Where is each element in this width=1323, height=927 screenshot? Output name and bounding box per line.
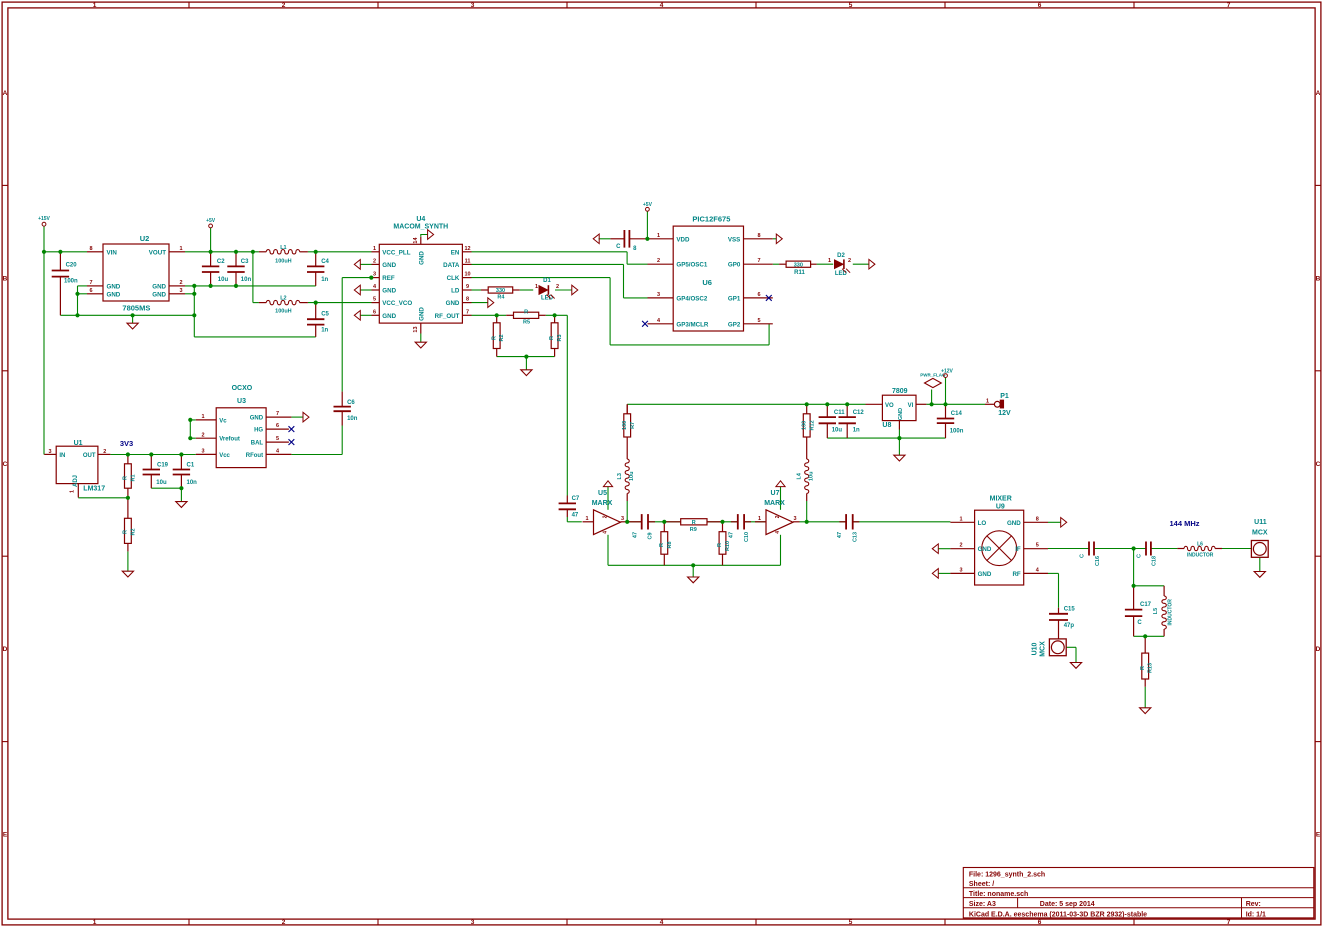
svg-text:D: D bbox=[3, 646, 8, 653]
svg-text:GP1: GP1 bbox=[728, 295, 741, 302]
svg-text:1: 1 bbox=[585, 516, 588, 522]
svg-text:10n: 10n bbox=[347, 416, 358, 422]
svg-text:R: R bbox=[123, 476, 129, 480]
svg-text:R: R bbox=[123, 530, 129, 534]
svg-text:R: R bbox=[1140, 666, 1146, 670]
svg-text:Id: 1/1: Id: 1/1 bbox=[1246, 911, 1266, 918]
svg-text:L5: L5 bbox=[1153, 608, 1159, 614]
svg-text:A: A bbox=[3, 90, 8, 97]
svg-text:10u: 10u bbox=[809, 472, 815, 481]
svg-text:7: 7 bbox=[466, 309, 469, 315]
svg-text:Rev:: Rev: bbox=[1246, 901, 1261, 908]
svg-text:MACOM_SYNTH: MACOM_SYNTH bbox=[393, 224, 448, 231]
svg-text:1n: 1n bbox=[853, 428, 860, 434]
svg-text:R12: R12 bbox=[809, 420, 815, 430]
svg-text:A: A bbox=[1316, 90, 1321, 97]
svg-text:L3: L3 bbox=[617, 473, 623, 479]
svg-text:RF_OUT: RF_OUT bbox=[435, 313, 460, 320]
svg-text:MARX: MARX bbox=[764, 500, 785, 507]
svg-text:1: 1 bbox=[70, 490, 76, 493]
svg-text:R2: R2 bbox=[499, 334, 505, 341]
svg-text:2: 2 bbox=[603, 515, 609, 518]
svg-text:C15: C15 bbox=[1064, 606, 1076, 612]
svg-text:GND: GND bbox=[107, 283, 121, 290]
svg-text:10u: 10u bbox=[629, 472, 635, 481]
svg-text:D2: D2 bbox=[837, 253, 845, 259]
svg-text:VDD: VDD bbox=[676, 236, 690, 243]
svg-text:3: 3 bbox=[959, 567, 962, 573]
svg-text:U1: U1 bbox=[74, 440, 83, 447]
svg-text:C13: C13 bbox=[852, 532, 858, 542]
svg-text:OUT: OUT bbox=[83, 453, 96, 459]
svg-text:1n: 1n bbox=[321, 327, 328, 333]
svg-text:7: 7 bbox=[1227, 2, 1231, 9]
svg-text:330: 330 bbox=[794, 262, 803, 268]
svg-text:Sheet: /: Sheet: / bbox=[969, 881, 994, 888]
svg-text:GP3/MCLR: GP3/MCLR bbox=[676, 321, 709, 328]
svg-text:Vc: Vc bbox=[219, 418, 227, 424]
svg-text:B: B bbox=[3, 275, 8, 282]
svg-text:VI: VI bbox=[908, 403, 914, 409]
svg-text:2: 2 bbox=[556, 284, 559, 290]
svg-text:R: R bbox=[692, 520, 696, 526]
svg-text:1: 1 bbox=[93, 919, 97, 926]
svg-text:VCC_PLL: VCC_PLL bbox=[382, 249, 410, 256]
svg-text:CLK: CLK bbox=[447, 275, 460, 282]
svg-text:E: E bbox=[1316, 832, 1321, 839]
svg-text:OCXO: OCXO bbox=[232, 385, 253, 392]
svg-text:+5V: +5V bbox=[206, 218, 216, 224]
svg-text:1: 1 bbox=[959, 516, 962, 522]
svg-text:C: C bbox=[1080, 554, 1086, 558]
svg-text:R10: R10 bbox=[725, 541, 731, 551]
svg-text:2: 2 bbox=[848, 258, 851, 264]
svg-text:GND: GND bbox=[898, 408, 904, 420]
svg-text:2: 2 bbox=[103, 449, 106, 455]
svg-text:144 MHz: 144 MHz bbox=[1169, 519, 1199, 528]
svg-text:Vcc: Vcc bbox=[219, 453, 230, 459]
svg-text:7809: 7809 bbox=[892, 388, 908, 395]
svg-text:C7: C7 bbox=[572, 496, 580, 502]
svg-text:2: 2 bbox=[282, 2, 286, 9]
svg-text:LM317: LM317 bbox=[83, 486, 105, 493]
svg-text:5: 5 bbox=[1036, 543, 1039, 549]
svg-text:3: 3 bbox=[657, 292, 660, 298]
svg-text:GND: GND bbox=[1007, 520, 1021, 527]
svg-text:C3: C3 bbox=[241, 259, 249, 265]
svg-text:3: 3 bbox=[793, 516, 796, 522]
svg-text:4: 4 bbox=[603, 531, 609, 534]
svg-text:5: 5 bbox=[373, 297, 376, 303]
svg-text:HG: HG bbox=[254, 428, 263, 434]
svg-text:1: 1 bbox=[201, 414, 204, 420]
svg-text:2: 2 bbox=[179, 280, 182, 286]
svg-text:DATA: DATA bbox=[443, 262, 460, 269]
svg-text:2: 2 bbox=[373, 258, 376, 264]
svg-text:4: 4 bbox=[660, 2, 664, 9]
svg-text:1: 1 bbox=[986, 398, 989, 404]
svg-text:R: R bbox=[524, 309, 528, 315]
svg-text:+15V: +15V bbox=[38, 216, 50, 222]
svg-text:6: 6 bbox=[373, 309, 376, 315]
svg-text:PIC12F675: PIC12F675 bbox=[692, 215, 730, 224]
svg-text:C17: C17 bbox=[1140, 602, 1152, 608]
svg-text:U10: U10 bbox=[1032, 642, 1039, 655]
svg-text:13: 13 bbox=[413, 326, 419, 332]
svg-text:5: 5 bbox=[276, 436, 279, 442]
svg-text:MIXER: MIXER bbox=[990, 495, 1012, 502]
svg-text:B: B bbox=[1316, 275, 1321, 282]
svg-text:+5V: +5V bbox=[643, 202, 653, 208]
svg-text:C10: C10 bbox=[744, 532, 750, 542]
svg-text:File: 1296_synth_2.sch: File: 1296_synth_2.sch bbox=[969, 872, 1045, 879]
svg-text:100: 100 bbox=[622, 421, 628, 430]
svg-text:GND: GND bbox=[419, 307, 426, 321]
svg-text:LD: LD bbox=[451, 288, 460, 295]
svg-text:R8: R8 bbox=[667, 541, 673, 548]
svg-text:LED: LED bbox=[541, 296, 554, 302]
svg-text:1n: 1n bbox=[321, 277, 328, 283]
svg-text:R4: R4 bbox=[497, 295, 505, 301]
svg-text:8: 8 bbox=[89, 246, 92, 252]
svg-text:KiCad E.D.A. eeschema (2011-0: KiCad E.D.A. eeschema (2011-03-3D BZR 29… bbox=[969, 911, 1147, 918]
svg-text:C20: C20 bbox=[66, 263, 78, 269]
svg-text:1: 1 bbox=[93, 2, 97, 9]
svg-text:INDUCTOR: INDUCTOR bbox=[1168, 599, 1174, 626]
svg-text:6: 6 bbox=[757, 292, 760, 298]
svg-text:5: 5 bbox=[849, 919, 853, 926]
svg-text:10u: 10u bbox=[156, 480, 167, 486]
svg-text:100uH: 100uH bbox=[275, 258, 292, 264]
svg-text:R: R bbox=[549, 336, 555, 340]
svg-text:VSS: VSS bbox=[728, 236, 740, 243]
svg-text:11: 11 bbox=[465, 258, 471, 264]
svg-text:Vrefout: Vrefout bbox=[219, 437, 240, 443]
svg-text:R7: R7 bbox=[630, 422, 636, 429]
svg-text:12V: 12V bbox=[998, 410, 1011, 417]
svg-text:3: 3 bbox=[471, 919, 475, 926]
svg-text:R9: R9 bbox=[690, 527, 697, 533]
svg-text:8: 8 bbox=[757, 233, 760, 239]
svg-text:100n: 100n bbox=[64, 279, 78, 285]
svg-text:8: 8 bbox=[1036, 516, 1039, 522]
svg-text:GND: GND bbox=[152, 291, 166, 298]
svg-text:EN: EN bbox=[451, 249, 460, 256]
svg-text:47: 47 bbox=[633, 532, 639, 538]
svg-text:2: 2 bbox=[959, 543, 962, 549]
svg-text:330: 330 bbox=[496, 288, 505, 294]
svg-text:RFout: RFout bbox=[246, 453, 263, 459]
svg-text:10n: 10n bbox=[187, 480, 198, 486]
svg-text:IN: IN bbox=[59, 453, 65, 459]
svg-text:100n: 100n bbox=[950, 429, 964, 435]
svg-text:VCC_VCO: VCC_VCO bbox=[382, 300, 412, 307]
svg-text:C6: C6 bbox=[347, 400, 355, 406]
svg-text:MCX: MCX bbox=[1252, 529, 1268, 536]
svg-text:1: 1 bbox=[373, 246, 376, 252]
svg-text:C14: C14 bbox=[951, 411, 963, 417]
svg-text:100: 100 bbox=[802, 421, 808, 430]
svg-text:3: 3 bbox=[621, 516, 624, 522]
svg-text:GP4/OSC2: GP4/OSC2 bbox=[676, 295, 708, 302]
svg-text:Date: 5 sep 2014: Date: 5 sep 2014 bbox=[1040, 901, 1095, 908]
svg-text:12: 12 bbox=[464, 246, 470, 252]
svg-text:REF: REF bbox=[382, 275, 395, 282]
svg-text:U4: U4 bbox=[416, 216, 425, 223]
svg-text:D1: D1 bbox=[543, 278, 551, 284]
svg-text:3V3: 3V3 bbox=[120, 439, 133, 448]
svg-text:3: 3 bbox=[201, 449, 204, 455]
svg-text:6: 6 bbox=[1038, 2, 1042, 9]
svg-text:GND: GND bbox=[978, 546, 992, 553]
svg-text:U6: U6 bbox=[702, 278, 712, 287]
svg-text:GND: GND bbox=[107, 291, 121, 298]
svg-text:U11: U11 bbox=[1254, 519, 1267, 526]
svg-text:10n: 10n bbox=[241, 277, 252, 283]
svg-text:C5: C5 bbox=[321, 312, 329, 318]
svg-text:1: 1 bbox=[179, 246, 182, 252]
svg-text:7: 7 bbox=[757, 258, 760, 264]
svg-text:C: C bbox=[3, 461, 8, 468]
svg-text:Size: A3: Size: A3 bbox=[969, 901, 996, 908]
svg-text:GND: GND bbox=[382, 288, 396, 295]
svg-text:GND: GND bbox=[382, 313, 396, 320]
svg-text:2: 2 bbox=[775, 515, 781, 518]
svg-text:GND: GND bbox=[978, 571, 992, 578]
svg-text:7: 7 bbox=[89, 280, 92, 286]
svg-text:47p: 47p bbox=[1064, 623, 1075, 629]
svg-text:R5: R5 bbox=[523, 320, 530, 326]
svg-text:Title: noname.sch: Title: noname.sch bbox=[969, 891, 1028, 898]
svg-text:14: 14 bbox=[413, 237, 419, 244]
svg-text:L1: L1 bbox=[280, 245, 286, 251]
svg-text:GP5/OSC1: GP5/OSC1 bbox=[676, 262, 708, 269]
svg-text:MCX: MCX bbox=[1040, 641, 1047, 657]
svg-text:10u: 10u bbox=[218, 277, 229, 283]
svg-text:4: 4 bbox=[775, 531, 781, 534]
svg-text:R: R bbox=[717, 543, 723, 547]
svg-text:C2: C2 bbox=[217, 259, 225, 265]
svg-text:E: E bbox=[3, 832, 8, 839]
svg-text:C18: C18 bbox=[1152, 556, 1158, 566]
svg-text:BAL: BAL bbox=[251, 441, 264, 447]
svg-text:R13: R13 bbox=[1148, 663, 1154, 673]
svg-text:C12: C12 bbox=[853, 410, 865, 416]
svg-text:GP0: GP0 bbox=[728, 262, 741, 269]
svg-text:U3: U3 bbox=[237, 398, 246, 405]
svg-text:D: D bbox=[1316, 646, 1321, 653]
svg-text:5: 5 bbox=[849, 2, 853, 9]
svg-text:1: 1 bbox=[657, 233, 660, 239]
svg-text:10u: 10u bbox=[832, 428, 843, 434]
svg-text:R1: R1 bbox=[130, 474, 136, 481]
svg-text:C: C bbox=[1137, 620, 1142, 626]
svg-text:+12V: +12V bbox=[941, 369, 953, 375]
svg-text:U8: U8 bbox=[882, 422, 891, 429]
svg-text:6: 6 bbox=[89, 288, 92, 294]
svg-text:GP2: GP2 bbox=[728, 321, 741, 328]
svg-text:VO: VO bbox=[885, 403, 894, 409]
svg-text:47: 47 bbox=[837, 532, 843, 538]
svg-text:U5: U5 bbox=[598, 490, 607, 497]
svg-text:100uH: 100uH bbox=[275, 309, 292, 315]
svg-text:47: 47 bbox=[729, 532, 735, 538]
svg-text:9: 9 bbox=[466, 284, 469, 290]
svg-text:3: 3 bbox=[471, 2, 475, 9]
svg-text:C: C bbox=[616, 244, 621, 250]
svg-text:C1: C1 bbox=[187, 463, 195, 469]
svg-text:L2: L2 bbox=[280, 296, 286, 302]
svg-text:U9: U9 bbox=[996, 504, 1005, 511]
svg-text:R11: R11 bbox=[794, 270, 805, 276]
svg-text:U2: U2 bbox=[140, 234, 150, 243]
svg-text:2: 2 bbox=[657, 258, 660, 264]
svg-text:C: C bbox=[1137, 554, 1143, 558]
svg-text:4: 4 bbox=[660, 919, 664, 926]
svg-text:R: R bbox=[491, 336, 497, 340]
svg-text:C: C bbox=[1316, 461, 1321, 468]
svg-text:VIN: VIN bbox=[107, 249, 118, 256]
svg-text:IF: IF bbox=[1015, 546, 1021, 553]
svg-text:GND: GND bbox=[419, 251, 426, 265]
svg-text:7805MS: 7805MS bbox=[122, 304, 150, 313]
svg-text:C9: C9 bbox=[648, 532, 654, 539]
svg-text:C19: C19 bbox=[157, 463, 169, 469]
svg-text:P1: P1 bbox=[1000, 393, 1009, 400]
svg-text:L6: L6 bbox=[1197, 542, 1203, 548]
svg-text:L4: L4 bbox=[797, 472, 803, 479]
svg-text:3: 3 bbox=[179, 288, 182, 294]
svg-text:C16: C16 bbox=[1095, 556, 1101, 566]
svg-text:7: 7 bbox=[1227, 919, 1231, 926]
svg-text:LO: LO bbox=[978, 520, 987, 527]
svg-text:GND: GND bbox=[250, 416, 264, 422]
svg-text:MARX: MARX bbox=[592, 500, 613, 507]
svg-text:3: 3 bbox=[48, 449, 51, 455]
svg-text:3: 3 bbox=[373, 272, 376, 278]
svg-text:1: 1 bbox=[758, 516, 761, 522]
svg-text:VOUT: VOUT bbox=[149, 249, 166, 256]
svg-text:6: 6 bbox=[276, 423, 279, 429]
svg-text:47: 47 bbox=[572, 513, 579, 519]
svg-text:R3: R3 bbox=[557, 334, 563, 341]
svg-text:8: 8 bbox=[466, 297, 469, 303]
svg-text:R: R bbox=[659, 543, 665, 547]
svg-text:10: 10 bbox=[464, 272, 470, 278]
svg-text:1: 1 bbox=[535, 284, 538, 290]
svg-text:1: 1 bbox=[828, 258, 831, 264]
svg-text:RF: RF bbox=[1012, 571, 1020, 578]
svg-text:6: 6 bbox=[1038, 919, 1042, 926]
svg-text:2: 2 bbox=[282, 919, 286, 926]
svg-text:R2: R2 bbox=[130, 528, 136, 535]
svg-text:7: 7 bbox=[276, 411, 279, 417]
svg-text:ADJ: ADJ bbox=[73, 475, 79, 487]
svg-text:C4: C4 bbox=[321, 259, 329, 265]
svg-text:GND: GND bbox=[152, 283, 166, 290]
svg-text:GND: GND bbox=[446, 300, 460, 307]
svg-text:INDUCTOR: INDUCTOR bbox=[1187, 553, 1214, 559]
svg-text:GND: GND bbox=[382, 262, 396, 269]
svg-text:U7: U7 bbox=[771, 490, 780, 497]
svg-text:2: 2 bbox=[201, 432, 204, 438]
svg-text:C11: C11 bbox=[834, 410, 845, 416]
svg-text:5: 5 bbox=[757, 318, 760, 324]
